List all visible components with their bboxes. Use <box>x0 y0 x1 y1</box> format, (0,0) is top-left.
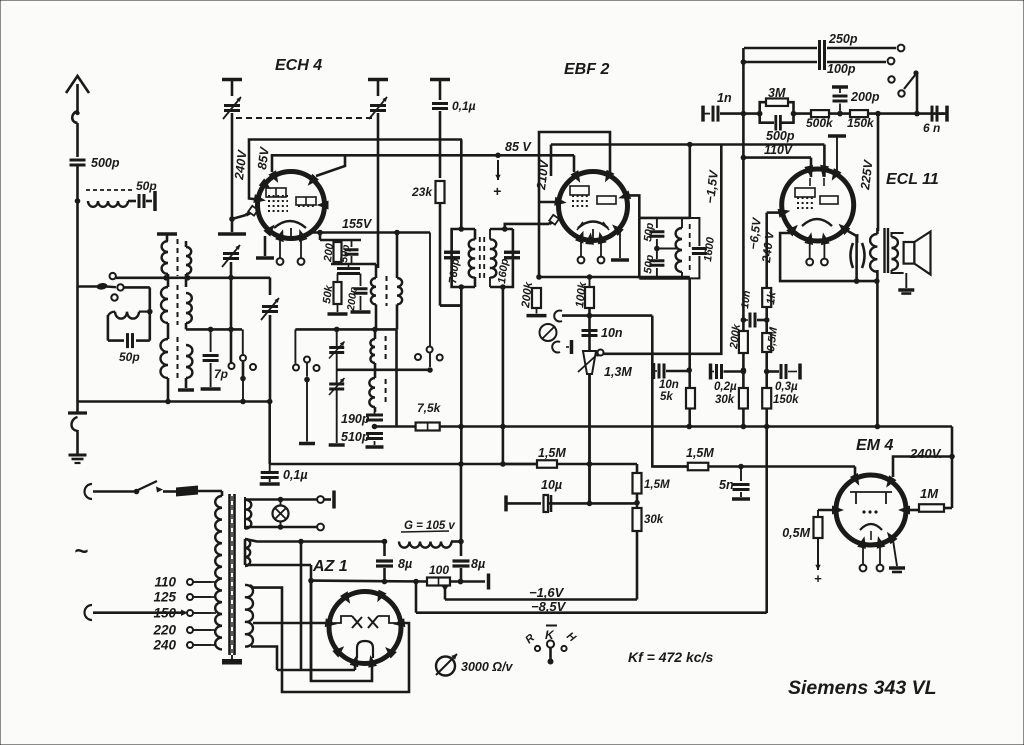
switch mains <box>93 490 134 493</box>
resistor 7,5k <box>416 423 440 431</box>
svg-text:240V.: 240V. <box>909 446 943 461</box>
IF1 frame left <box>452 229 475 232</box>
resistor 0,5M <box>762 333 771 352</box>
wire diode load <box>539 276 690 279</box>
wire screen divider <box>636 464 639 600</box>
resistor 3M with 500p <box>760 102 766 113</box>
svg-text:85V: 85V <box>255 145 272 170</box>
wire minus grid lines <box>742 114 745 427</box>
node IF1 bottom <box>459 284 465 290</box>
wire minus 8,5 tap <box>415 582 418 613</box>
wire ECL11 output box <box>780 233 877 281</box>
node antenna junction <box>75 198 81 204</box>
wire switch to coupling box <box>124 286 150 289</box>
coil antenna coupling <box>107 315 110 341</box>
svg-text:10n: 10n <box>601 326 623 340</box>
wire gang dashed link <box>236 117 374 119</box>
wire HV mid to anode1 <box>253 622 329 625</box>
svg-text:EM 4: EM 4 <box>856 437 893 454</box>
svg-text:5k: 5k <box>660 391 673 403</box>
ground bar gang section 2 <box>368 78 388 82</box>
wire grid network <box>743 112 759 115</box>
svg-text:AZ 1: AZ 1 <box>312 558 348 575</box>
lamp dial <box>273 506 289 522</box>
switch pickup <box>888 76 894 82</box>
variable capacitor oscillator C2 <box>223 252 239 255</box>
capacitor 0,1u anode decoupling <box>432 102 448 105</box>
capacitor 0,3u <box>767 370 779 373</box>
wire to ECH4 grid cap <box>232 215 246 219</box>
svg-text:155V: 155V <box>342 217 373 231</box>
node 190p junction <box>372 424 378 430</box>
svg-text:500k: 500k <box>806 116 834 130</box>
tube EM4 internals <box>850 491 892 493</box>
svg-text:50p: 50p <box>642 222 656 243</box>
svg-text:1n: 1n <box>717 91 732 105</box>
wire mains lower <box>93 611 181 614</box>
switch band 3 <box>429 233 431 347</box>
switch band 2 <box>294 329 296 363</box>
capacitor 160p <box>504 251 520 254</box>
svg-text:G = 105 v: G = 105 v <box>404 520 455 532</box>
wire heater to lamp <box>245 498 317 501</box>
svg-text:250p: 250p <box>828 32 858 46</box>
wire 110V <box>743 156 811 159</box>
IF1 frame right <box>490 228 513 231</box>
capacitor 50p antenna <box>138 194 141 208</box>
svg-text:6 n: 6 n <box>923 121 940 135</box>
svg-text:150: 150 <box>153 606 176 621</box>
wire EBF2 plate to IF2 <box>628 195 640 218</box>
svg-text:200p: 200p <box>850 90 880 104</box>
wire ECH4 cathode ground <box>264 236 267 256</box>
svg-text:240: 240 <box>152 638 176 653</box>
IF2 frame <box>639 217 690 220</box>
wire B+ up <box>460 464 463 542</box>
capacitor 1600p IF2 <box>692 247 707 250</box>
coil IF1 secondary <box>489 229 491 240</box>
svg-text:50p: 50p <box>338 243 352 263</box>
plug mains upper <box>85 484 92 499</box>
plug mains lower <box>85 605 92 620</box>
speaker <box>904 242 915 264</box>
variable capacitor oscillator padder <box>269 278 272 296</box>
wire 210V <box>550 145 553 177</box>
svg-text:+: + <box>493 183 501 199</box>
capacitor 50p coupling <box>108 339 124 342</box>
resistor 1,5M vertical <box>633 473 642 494</box>
resistor 23k <box>436 181 445 203</box>
capacitor 10n AVC <box>652 363 656 379</box>
resistor 150k grid <box>850 110 868 117</box>
wire pot bottom <box>588 374 591 503</box>
ground EM4 <box>893 540 897 566</box>
core padder <box>385 336 387 362</box>
pin leads EM4 bottom <box>862 543 864 564</box>
wire pickup 250p <box>744 47 817 50</box>
coil oscillator core <box>386 276 388 306</box>
wire band wire y278 <box>116 276 270 279</box>
svg-text:220: 220 <box>152 623 176 638</box>
wire AZ1 filament nest <box>300 542 303 671</box>
antenna <box>66 76 89 93</box>
wire 744 vertical top <box>742 48 745 114</box>
svg-text:ECL 11: ECL 11 <box>886 171 939 188</box>
fuse <box>163 490 176 493</box>
wire pickup 100p <box>744 61 817 64</box>
wire trimmer chain <box>336 329 338 347</box>
capacitor 1n input <box>701 106 705 122</box>
svg-text:10n: 10n <box>739 290 753 309</box>
resistor 100k EBF2 <box>589 277 591 287</box>
coil oscillator secondary <box>396 233 399 279</box>
coil padder lower <box>369 378 375 407</box>
svg-text:50p: 50p <box>119 350 140 364</box>
svg-text:−8,5V: −8,5V <box>531 599 567 614</box>
wire AZ1 filament feed <box>245 539 301 542</box>
meter note <box>436 657 455 676</box>
wire oscillator to bus <box>395 329 398 426</box>
ground speaker <box>905 273 907 288</box>
resistor 5k <box>686 388 695 409</box>
svg-text:7p: 7p <box>214 367 228 381</box>
wire HV top to anode2 <box>250 585 409 692</box>
tube ECL11 <box>782 169 854 241</box>
resistor 0,5M EM4 <box>818 509 836 512</box>
svg-text:0,3µ: 0,3µ <box>775 381 798 393</box>
svg-text:110V: 110V <box>764 143 794 157</box>
capacitor 50p osc <box>345 248 359 251</box>
svg-text:7,5k: 7,5k <box>417 401 442 415</box>
transformer core <box>228 494 231 655</box>
capacitor 510p <box>366 432 383 435</box>
pin leads EBF2 bottom <box>580 238 582 256</box>
wire ECH4 anode frame 240V <box>249 140 462 200</box>
svg-text:125: 125 <box>153 590 176 605</box>
capacitor 50p IF2 upper <box>656 218 658 228</box>
wire EBF2 cathode left <box>539 201 559 204</box>
tube AZ1 internals <box>334 616 352 623</box>
wire headphone tap <box>562 314 652 317</box>
bar gang stator <box>218 232 246 236</box>
node IF1 top <box>459 226 465 232</box>
resistor 50k osc <box>334 282 342 304</box>
wire HV bottom <box>251 647 277 671</box>
svg-text:23k: 23k <box>411 185 433 199</box>
svg-text:510p: 510p <box>341 430 370 444</box>
coil IF1 primary <box>474 229 477 240</box>
resistor 1,5M number2 <box>688 463 709 471</box>
svg-text:1,5M: 1,5M <box>644 479 670 491</box>
node 100k top <box>587 274 593 280</box>
tube EBF2 <box>559 172 628 241</box>
ground bar ECL11 shield <box>828 134 846 138</box>
coil oscillator primary <box>370 263 376 266</box>
svg-text:10µ: 10µ <box>541 478 562 492</box>
capacitor osc padding <box>348 264 350 267</box>
node grid tap ECH4 <box>229 216 235 222</box>
svg-text:ECH 4: ECH 4 <box>275 57 322 74</box>
jack phone <box>540 324 557 341</box>
svg-text:3000 Ω/v: 3000 Ω/v <box>461 660 514 674</box>
svg-text:500p: 500p <box>91 156 120 170</box>
wire IF1 sec bottom <box>500 284 506 290</box>
wire ECL11 cathode <box>767 211 782 214</box>
svg-text:100p: 100p <box>827 62 856 76</box>
wire AVC tap to switch <box>337 368 430 371</box>
tube EBF2 internals <box>570 186 589 195</box>
svg-text:1,5M: 1,5M <box>686 446 714 460</box>
capacitor 10n AF <box>582 329 598 332</box>
switch band 1 <box>240 355 246 361</box>
svg-text:1k: 1k <box>765 291 779 306</box>
tube ECH4 internals <box>266 188 286 197</box>
trimmer oscillator 2 <box>329 383 344 386</box>
switch antenna <box>78 285 100 288</box>
capacitor 6n output <box>931 106 934 122</box>
wire IF1 to EBF2 grid <box>505 224 549 229</box>
svg-text:8µ: 8µ <box>398 557 412 571</box>
wire EM4 anode <box>951 427 954 509</box>
coil IF2 secondary <box>681 218 683 228</box>
ground bar 0.1u <box>430 78 450 82</box>
capacitor 760p <box>444 251 460 254</box>
svg-text:5n: 5n <box>719 478 734 492</box>
svg-text:+: + <box>814 571 822 586</box>
capacitor 5n <box>740 467 742 482</box>
svg-text:30k: 30k <box>644 514 664 526</box>
svg-text:190p: 190p <box>341 412 370 426</box>
wire osc top <box>319 233 322 241</box>
transformer output core <box>883 228 885 273</box>
wire ECL11 grid1 <box>823 145 826 177</box>
capacitor 0,1u chassis <box>261 471 279 474</box>
ground transformer core <box>231 655 233 659</box>
node IF1 sec top <box>502 226 508 232</box>
transformer antenna section3 <box>161 339 168 378</box>
svg-text:50p: 50p <box>642 254 656 275</box>
wire minus8,5V <box>416 611 767 614</box>
capacitor 10n bias <box>743 319 748 321</box>
svg-text:200: 200 <box>322 242 336 264</box>
capacitor tone <box>851 243 854 268</box>
bar antenna transformer top <box>157 232 177 236</box>
coil padder upper <box>374 329 377 339</box>
bus AVC main <box>375 425 416 428</box>
capacitor 200p grid <box>832 85 848 89</box>
wire EBF2 plate frame <box>539 132 610 277</box>
wire oscillator mid rail <box>295 328 396 331</box>
capacitor 190p <box>366 414 383 417</box>
resistor 1,5M number1 <box>503 463 537 466</box>
svg-text:500p: 500p <box>766 129 795 143</box>
resistor 30k <box>739 388 748 409</box>
svg-text:10n: 10n <box>659 379 679 391</box>
wire 225V drop <box>877 114 880 231</box>
tube ECH4 <box>258 172 325 239</box>
svg-text:50p: 50p <box>136 179 157 193</box>
transformer output secondary <box>892 237 898 270</box>
winding HV <box>245 585 253 647</box>
wire bias rail <box>310 581 313 681</box>
winding heater1 <box>244 497 246 529</box>
wire chassis bus left <box>78 400 270 403</box>
wire transformer mid link <box>186 328 242 331</box>
tube AZ1 <box>329 592 401 664</box>
svg-text:30k: 30k <box>715 394 735 406</box>
wire output to EM4 anode <box>876 281 879 426</box>
svg-text:0,1µ: 0,1µ <box>452 99 476 113</box>
svg-text:150k: 150k <box>847 116 875 130</box>
capacitor 200p osc <box>360 274 362 287</box>
resistor 200k EBF2 <box>532 288 541 308</box>
pin leads ECL11 bottom <box>809 239 811 259</box>
transformer primary <box>221 491 224 496</box>
IF2 core <box>689 224 691 247</box>
wire 23k to IF1 bottom <box>440 304 461 307</box>
rail 210V horizontal <box>551 143 824 146</box>
svg-text:85 V: 85 V <box>505 140 532 154</box>
svg-text:−1,6V: −1,6V <box>529 585 565 600</box>
resistor 100 <box>427 578 450 586</box>
capacitor 8u number1 <box>383 542 386 557</box>
svg-text:100: 100 <box>429 563 449 577</box>
capacitor 10u <box>504 495 508 511</box>
capacitor 8u number2 <box>453 559 470 562</box>
wire EM4 grid <box>854 467 857 478</box>
svg-text:Kf = 472 kc/s: Kf = 472 kc/s <box>628 649 713 665</box>
capacitor 500p antenna <box>70 159 86 162</box>
tube ECL11 internals <box>795 188 815 197</box>
capacitor 7p <box>210 329 212 352</box>
capacitor 0,2u <box>709 364 713 380</box>
wire minus1,6V <box>445 598 637 601</box>
wire minus 1,6 tap <box>444 585 447 600</box>
variable capacitor tuning C1a <box>224 104 240 107</box>
trimmer oscillator 1 <box>329 346 344 349</box>
ground antenna lead <box>68 411 87 414</box>
resistor 150k bias <box>762 388 771 409</box>
wire ECH4 top right pin <box>316 155 345 176</box>
svg-text:50k: 50k <box>321 284 335 305</box>
resistor 500k <box>811 110 829 117</box>
wire pot wiper to AVC <box>604 145 722 354</box>
resistor 200k bias <box>739 331 748 353</box>
cathode chain ECL11 <box>765 213 768 613</box>
wire IF2 bottom to AVC bus <box>688 278 691 426</box>
tube EM4 <box>836 475 906 545</box>
transformer antenna section1 <box>166 234 169 241</box>
potentiometer 1,3M volume <box>583 351 596 374</box>
wire ECH4 screen 85V <box>272 155 574 172</box>
capacitor 50p IF2 lower <box>649 259 664 262</box>
node osc section <box>228 275 234 281</box>
svg-text:~: ~ <box>74 538 88 565</box>
svg-text:Siemens 343 VL: Siemens 343 VL <box>788 677 937 699</box>
wire osc mid <box>331 263 370 266</box>
resistor 1k <box>762 288 771 307</box>
svg-text:0,1µ: 0,1µ <box>283 468 308 482</box>
svg-text:0,2µ: 0,2µ <box>714 381 737 393</box>
wire heater 85V drop <box>573 155 576 172</box>
wire 155V anode line <box>308 231 430 234</box>
resistor 30k divider <box>633 508 642 531</box>
transformer output primary <box>876 228 879 234</box>
svg-text:1M: 1M <box>920 486 939 501</box>
svg-text:150k: 150k <box>773 394 799 406</box>
svg-text:1,5M: 1,5M <box>538 446 566 460</box>
IF1 core <box>479 237 481 278</box>
node 10n 5k junction <box>686 367 692 373</box>
wire choke feed <box>301 540 385 543</box>
svg-text:0,5M: 0,5M <box>782 526 810 540</box>
svg-text:EBF 2: EBF 2 <box>564 61 609 78</box>
svg-text:110: 110 <box>154 575 176 590</box>
pin leads ECH4 bottom <box>279 238 281 258</box>
winding heater2 AZ1 <box>245 539 250 566</box>
wire grid network mid <box>794 112 812 115</box>
node 85V arrow <box>495 153 501 159</box>
svg-text:8µ: 8µ <box>471 557 485 571</box>
variable capacitor tuning C1b <box>370 104 386 107</box>
resistor 200 osc <box>334 242 342 262</box>
wire ECL11 grid2 110V <box>810 158 813 177</box>
node IF2 tap <box>654 246 660 252</box>
wire B+ rail <box>268 402 271 465</box>
coil antenna series <box>86 189 132 191</box>
svg-text:3M: 3M <box>768 86 786 100</box>
ground bar gang section 1 <box>222 78 242 82</box>
transformer antenna section2 <box>161 287 168 323</box>
svg-text:1,3M: 1,3M <box>604 365 632 379</box>
resistor 1M <box>906 509 919 512</box>
